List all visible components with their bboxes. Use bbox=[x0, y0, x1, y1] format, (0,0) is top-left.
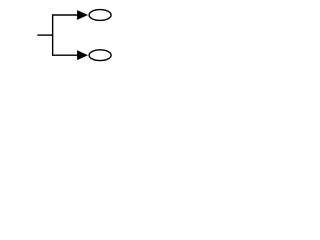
background bbox=[0, 0, 150, 73]
arrowhead bottom bbox=[77, 50, 88, 60]
ellipse top bbox=[89, 10, 111, 21]
wire input stub bbox=[37, 34, 52, 36]
ellipse bottom bbox=[89, 50, 111, 61]
arrowhead top bbox=[77, 10, 88, 20]
wire fanout: vertical with top and bottom branch bbox=[53, 15, 78, 55]
